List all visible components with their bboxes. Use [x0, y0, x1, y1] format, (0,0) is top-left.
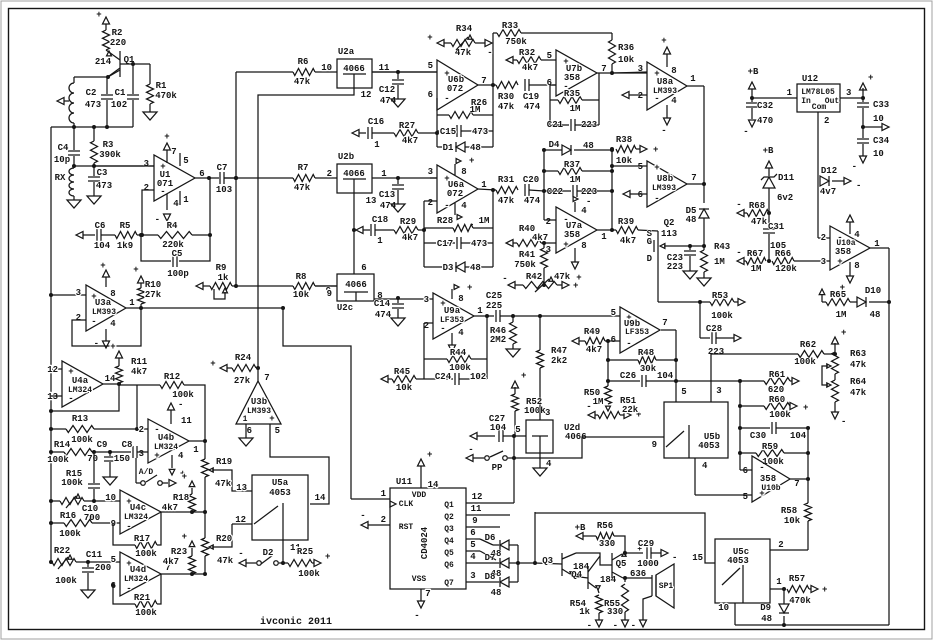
- svg-text:Q5: Q5: [616, 559, 627, 569]
- svg-text:C20: C20: [523, 175, 539, 185]
- svg-text:-: -: [736, 248, 741, 258]
- svg-text:R22: R22: [54, 546, 70, 556]
- potentiometer R9: [210, 263, 232, 290]
- svg-text:474: 474: [524, 196, 541, 206]
- U5b pin4 stub: [695, 458, 708, 495]
- resistor R44: [424, 348, 487, 373]
- U1 pin4 stub: [155, 194, 180, 225]
- capacitor C11: [82, 550, 111, 590]
- wire Q1 collector: [74, 70, 120, 79]
- svg-text:R56: R56: [597, 521, 613, 531]
- svg-text:27k: 27k: [234, 376, 251, 386]
- pot R20: [202, 524, 234, 566]
- svg-text:12: 12: [47, 365, 58, 375]
- svg-text:C4: C4: [58, 143, 69, 153]
- wire U8a pin3: [612, 72, 647, 73]
- svg-text:4k7: 4k7: [402, 233, 418, 243]
- capacitor C30: [740, 422, 810, 441]
- wire U2b pin13: [352, 193, 356, 274]
- svg-text:R34: R34: [456, 24, 473, 34]
- resistor R6: [293, 57, 337, 87]
- svg-text:4: 4: [546, 459, 552, 469]
- speaker SP1: [652, 564, 674, 608]
- wire U7b output: [597, 71, 647, 75]
- resistor R54: [596, 590, 603, 620]
- svg-text:100k: 100k: [524, 406, 546, 416]
- svg-text:5: 5: [611, 308, 616, 318]
- svg-text:VSS: VSS: [412, 575, 427, 584]
- svg-text:D8: D8: [485, 572, 496, 582]
- capacitor C14: [374, 296, 433, 320]
- U10a pin4 stub: [847, 215, 861, 240]
- svg-text:11: 11: [181, 416, 192, 426]
- resistor R67: [746, 249, 771, 274]
- svg-text:48: 48: [686, 215, 697, 225]
- svg-text:R53: R53: [712, 291, 728, 301]
- op-amp U7a: [546, 207, 608, 255]
- svg-text:6: 6: [743, 466, 748, 476]
- U7a input vertical: [543, 150, 545, 220]
- svg-text:C18: C18: [372, 215, 388, 225]
- svg-text:R39: R39: [618, 217, 634, 227]
- svg-text:8: 8: [671, 66, 676, 76]
- svg-text:+: +: [573, 281, 578, 291]
- svg-text:473: 473: [96, 181, 112, 191]
- arrow C33 plus: [860, 73, 874, 90]
- svg-text:358: 358: [760, 474, 776, 484]
- svg-text:Q5: Q5: [444, 549, 454, 558]
- svg-text:R1: R1: [156, 81, 167, 91]
- svg-text:RX: RX: [55, 173, 66, 183]
- svg-text:-: -: [502, 274, 507, 284]
- svg-text:47k: 47k: [850, 388, 867, 398]
- svg-text:12: 12: [472, 492, 483, 502]
- U3a pin2 loop: [72, 308, 141, 346]
- label +B audio: [575, 523, 586, 533]
- svg-text:7: 7: [171, 147, 176, 157]
- U7a pin8 stub: [572, 241, 587, 283]
- svg-text:C3: C3: [97, 168, 108, 178]
- analog switch U5c: [715, 539, 770, 603]
- svg-text:4066: 4066: [345, 280, 367, 290]
- resistor R64: [832, 374, 867, 402]
- ground under R46: [506, 349, 520, 357]
- capacitor C4: [54, 127, 80, 166]
- svg-text:4k7: 4k7: [620, 236, 636, 246]
- svg-text:48: 48: [470, 263, 481, 273]
- U11 pin7 ground: [414, 589, 430, 621]
- svg-text:U5a: U5a: [272, 478, 289, 488]
- svg-text:CLK: CLK: [399, 500, 414, 509]
- svg-text:102: 102: [111, 100, 127, 110]
- wire U2c pin9: [315, 285, 337, 287]
- resistor R28: [424, 216, 493, 232]
- svg-text:620: 620: [768, 385, 784, 395]
- resistor R57: [787, 574, 827, 606]
- svg-text:LM393: LM393: [652, 184, 676, 193]
- svg-text:R24: R24: [235, 353, 252, 363]
- svg-text:Q4: Q4: [444, 537, 454, 546]
- U11 Q4 stub: [466, 528, 480, 539]
- node wire RX: [72, 164, 154, 168]
- svg-text:+B: +B: [575, 523, 586, 533]
- capacitor C32: [746, 98, 773, 126]
- svg-text:RST: RST: [399, 523, 414, 532]
- R9 pot wiper: [214, 288, 227, 299]
- U1 pin1 stub: [180, 191, 189, 205]
- arrow R45 left: [381, 376, 392, 383]
- svg-text:1M: 1M: [714, 257, 725, 267]
- svg-text:R28: R28: [437, 216, 453, 226]
- U5a pin11: [281, 540, 301, 565]
- svg-text:7: 7: [264, 373, 269, 383]
- svg-text:100k: 100k: [61, 478, 83, 488]
- svg-text:1: 1: [129, 298, 135, 308]
- svg-text:C16: C16: [368, 117, 384, 127]
- svg-text:SP1: SP1: [659, 582, 674, 591]
- svg-text:3: 3: [139, 449, 144, 459]
- svg-text:214: 214: [95, 57, 112, 67]
- svg-text:D6: D6: [485, 533, 496, 543]
- svg-text:2: 2: [381, 515, 386, 525]
- diode D8: [480, 577, 518, 587]
- resistor R5: [115, 221, 137, 251]
- wire U4c output: [161, 510, 207, 514]
- capacitor C17: [424, 237, 493, 249]
- svg-text:+: +: [133, 265, 138, 275]
- U9a pin8 stub: [452, 283, 472, 304]
- svg-text:-: -: [586, 402, 591, 412]
- svg-text:470k: 470k: [789, 596, 811, 606]
- wire U8b output: [687, 183, 704, 185]
- analog switch U5b: [664, 402, 728, 458]
- U11 Q5 stub: [466, 540, 480, 551]
- svg-text:100k: 100k: [135, 608, 157, 618]
- svg-text:+: +: [837, 257, 842, 267]
- svg-text:D10: D10: [865, 286, 881, 296]
- svg-text:+: +: [269, 414, 274, 424]
- svg-text:R9: R9: [216, 263, 227, 273]
- svg-text:R27: R27: [399, 121, 415, 131]
- switch D2: [238, 548, 283, 567]
- wire R7 row: [224, 163, 337, 193]
- arrow R64 minus: [832, 402, 847, 427]
- svg-text:100k: 100k: [59, 529, 81, 539]
- svg-text:4053: 4053: [727, 556, 749, 566]
- label +B top: [748, 67, 759, 77]
- svg-text:1k: 1k: [579, 607, 590, 617]
- svg-text:474: 474: [375, 310, 392, 320]
- pot R34: [427, 24, 492, 58]
- svg-text:R32: R32: [519, 48, 535, 58]
- svg-text:C1: C1: [115, 88, 126, 98]
- svg-text:R60: R60: [769, 395, 785, 405]
- arrow C34 minus: [852, 156, 867, 172]
- svg-text:1: 1: [477, 306, 483, 316]
- analog switch U2c: [327, 263, 383, 313]
- arrow U8a pin2: [622, 92, 647, 99]
- R49 node vertical: [607, 341, 609, 386]
- svg-text:C17: C17: [437, 239, 453, 249]
- svg-text:LM324: LM324: [154, 443, 178, 452]
- svg-text:R63: R63: [850, 349, 866, 359]
- arrow R49 left: [572, 338, 585, 345]
- svg-text:+: +: [325, 552, 330, 562]
- U8b node vertical: [610, 149, 614, 230]
- U4b pin4 stub: [169, 451, 185, 479]
- node R5-R4: [137, 233, 158, 237]
- svg-text:4k7: 4k7: [532, 233, 548, 243]
- wire Q3 base: [533, 561, 562, 565]
- resistor R32: [517, 48, 556, 73]
- svg-text:-: -: [360, 511, 365, 521]
- svg-text:47k: 47k: [498, 102, 515, 112]
- svg-text:102: 102: [470, 372, 486, 382]
- U11 RST arrow: [360, 511, 390, 529]
- ground R54: [587, 620, 603, 631]
- svg-text:VDD: VDD: [412, 491, 427, 500]
- svg-text:100p: 100p: [167, 269, 189, 279]
- svg-text:2: 2: [778, 540, 783, 550]
- wire into pin15: [535, 513, 715, 563]
- zener D11: [761, 161, 795, 213]
- resistor R39: [616, 217, 658, 246]
- svg-text:100k: 100k: [55, 576, 77, 586]
- svg-text:C31: C31: [768, 222, 785, 232]
- svg-text:6: 6: [611, 335, 616, 345]
- svg-text:47k: 47k: [455, 48, 472, 58]
- arrow R9 left: [196, 283, 210, 290]
- arrow C16 left: [352, 130, 366, 137]
- svg-text:14: 14: [428, 480, 439, 490]
- op-amp U8a: [638, 62, 697, 110]
- svg-text:+: +: [110, 342, 115, 352]
- U11 Q6 stub: [466, 552, 480, 563]
- svg-text:4k7: 4k7: [522, 63, 538, 73]
- U5b pin3 stub: [711, 354, 798, 402]
- svg-text:Q6: Q6: [444, 561, 454, 570]
- U9a pin4 stub: [449, 328, 467, 358]
- svg-text:2: 2: [824, 116, 829, 126]
- svg-text:LM78L05: LM78L05: [801, 88, 835, 97]
- svg-text:-: -: [856, 181, 861, 191]
- resistor R62: [794, 340, 837, 367]
- svg-text:6: 6: [247, 426, 252, 436]
- U6a pin8 stub: [455, 156, 474, 177]
- U6a feedback left vertical: [422, 201, 437, 267]
- svg-text:-: -: [94, 339, 99, 349]
- svg-text:12: 12: [235, 515, 246, 525]
- svg-text:10k: 10k: [616, 156, 633, 166]
- wire U3a pin3: [49, 293, 86, 297]
- svg-text:Q7: Q7: [444, 579, 454, 588]
- resistor R24: [210, 353, 258, 386]
- svg-text:1: 1: [481, 180, 487, 190]
- svg-text:R47: R47: [551, 346, 567, 356]
- op-amp U4c: [105, 490, 171, 534]
- svg-text:-: -: [841, 417, 846, 427]
- svg-text:-: -: [155, 215, 160, 225]
- svg-text:+: +: [427, 33, 432, 43]
- svg-text:70: 70: [87, 454, 98, 464]
- resistor R50 and pot R51: [584, 386, 642, 420]
- svg-text:D2: D2: [263, 548, 274, 558]
- svg-text:C8: C8: [122, 440, 133, 450]
- svg-text:R19: R19: [216, 457, 232, 467]
- wire into CLK: [351, 489, 390, 499]
- svg-text:R17: R17: [134, 534, 150, 544]
- svg-text:C11: C11: [86, 550, 103, 560]
- wire D9 bottom: [718, 603, 889, 627]
- svg-text:470k: 470k: [155, 91, 177, 101]
- vertical from C7: [234, 72, 238, 286]
- svg-text:Q3: Q3: [542, 556, 553, 566]
- svg-text:13: 13: [366, 196, 377, 206]
- svg-text:R67: R67: [747, 249, 763, 259]
- svg-text:1M: 1M: [570, 175, 581, 185]
- svg-text:R38: R38: [616, 135, 632, 145]
- wire U10a output: [870, 248, 889, 302]
- capacitor C7: [216, 163, 236, 195]
- svg-text:LM324: LM324: [68, 386, 92, 395]
- svg-text:+: +: [210, 359, 215, 369]
- svg-text:CD4024: CD4024: [420, 526, 430, 559]
- resistor R58: [781, 479, 812, 550]
- diode D9: [760, 589, 789, 625]
- wire U9a output: [474, 315, 494, 317]
- svg-text:C34: C34: [873, 136, 890, 146]
- svg-text:474: 474: [524, 102, 541, 112]
- svg-text:4: 4: [671, 96, 677, 106]
- svg-text:10: 10: [873, 114, 884, 124]
- capacitor C18: [371, 215, 394, 246]
- capacitor C26: [606, 371, 740, 387]
- resistor R55: [622, 578, 629, 620]
- svg-text:1: 1: [377, 236, 383, 246]
- ground under C3: [87, 196, 101, 204]
- svg-text:2: 2: [139, 425, 144, 435]
- U5b pin5 stub: [681, 387, 686, 397]
- svg-text:LF353: LF353: [625, 328, 649, 337]
- svg-text:47k: 47k: [554, 272, 571, 282]
- diode D1: [437, 142, 493, 153]
- svg-text:5: 5: [547, 51, 552, 61]
- U2d pin4 ground: [533, 453, 552, 476]
- resistor R52: [512, 371, 547, 436]
- svg-text:8: 8: [854, 261, 859, 271]
- svg-text:8: 8: [581, 241, 586, 251]
- svg-text:6: 6: [638, 190, 643, 200]
- svg-text:R25: R25: [297, 547, 313, 557]
- resistor R48: [606, 348, 676, 374]
- svg-text:14: 14: [105, 374, 116, 384]
- resistor R49: [584, 327, 620, 355]
- svg-text:D11: D11: [778, 173, 795, 183]
- svg-text:+: +: [563, 240, 568, 250]
- U10a pin8 stub: [840, 261, 860, 293]
- title text: [260, 616, 332, 628]
- svg-text:7: 7: [794, 479, 799, 489]
- svg-text:-: -: [631, 621, 636, 631]
- svg-text:13: 13: [47, 392, 58, 402]
- svg-text:+: +: [467, 283, 472, 293]
- transistor Q1: [95, 51, 135, 77]
- svg-text:R12: R12: [164, 372, 180, 382]
- svg-text:Q4: Q4: [571, 570, 582, 580]
- arrow +B audio: [576, 533, 596, 540]
- svg-text:R23: R23: [171, 547, 187, 557]
- svg-text:470: 470: [757, 116, 773, 126]
- svg-text:C26: C26: [620, 371, 636, 381]
- svg-text:48: 48: [870, 310, 881, 320]
- node C7 right: [234, 176, 238, 180]
- arrow R32 left: [506, 57, 517, 64]
- svg-text:8: 8: [458, 294, 463, 304]
- capacitor C12: [372, 70, 437, 106]
- U4b pin11 stub: [168, 400, 193, 426]
- svg-text:223: 223: [667, 262, 683, 272]
- svg-text:358: 358: [564, 73, 580, 83]
- svg-text:9: 9: [327, 289, 332, 299]
- svg-text:1k9: 1k9: [117, 241, 133, 251]
- capacitor C2: [85, 77, 113, 127]
- svg-text:4v7: 4v7: [820, 187, 836, 197]
- svg-text:100k: 100k: [794, 357, 816, 367]
- U6a pin4 stub: [455, 201, 474, 230]
- svg-text:R45: R45: [394, 367, 410, 377]
- svg-text:1: 1: [787, 88, 793, 98]
- wire Q1 base row: [120, 62, 150, 66]
- wire Q3 to Q4: [572, 576, 588, 578]
- pot R42: [502, 272, 578, 292]
- svg-text:104: 104: [94, 241, 111, 251]
- svg-text:U9a: U9a: [444, 306, 461, 316]
- capacitor C20: [523, 175, 544, 206]
- U4a output loop: [49, 384, 119, 413]
- svg-text:R61: R61: [769, 370, 786, 380]
- svg-text:C25: C25: [486, 291, 502, 301]
- svg-text:R6: R6: [298, 57, 309, 67]
- svg-text:-: -: [661, 126, 666, 136]
- svg-text:474: 474: [380, 201, 397, 211]
- capacitor C6: [94, 221, 115, 251]
- svg-text:4: 4: [470, 552, 476, 562]
- transistor Q4: [571, 556, 617, 590]
- arrow C18 left: [356, 227, 370, 234]
- svg-text:R66: R66: [775, 249, 791, 259]
- svg-text:1: 1: [690, 74, 696, 84]
- svg-text:5: 5: [111, 555, 116, 565]
- svg-text:4k7: 4k7: [586, 345, 602, 355]
- svg-text:-: -: [126, 584, 131, 594]
- svg-text:3: 3: [424, 295, 429, 305]
- resistor R33: [493, 21, 612, 47]
- capacitor C15: [437, 125, 493, 137]
- svg-text:LM324: LM324: [124, 513, 148, 522]
- svg-text:4: 4: [461, 201, 467, 211]
- svg-text:R48: R48: [638, 348, 654, 358]
- svg-text:2: 2: [327, 169, 332, 179]
- svg-text:30k: 30k: [640, 364, 657, 374]
- svg-text:+: +: [154, 451, 159, 461]
- svg-text:-: -: [672, 553, 677, 563]
- ground under C11: [81, 590, 95, 598]
- svg-text:U3a: U3a: [95, 298, 112, 308]
- svg-text:113: 113: [661, 229, 677, 239]
- svg-text:100k: 100k: [47, 455, 69, 465]
- pot R19: [202, 457, 253, 493]
- op-amp U8b: [638, 161, 697, 207]
